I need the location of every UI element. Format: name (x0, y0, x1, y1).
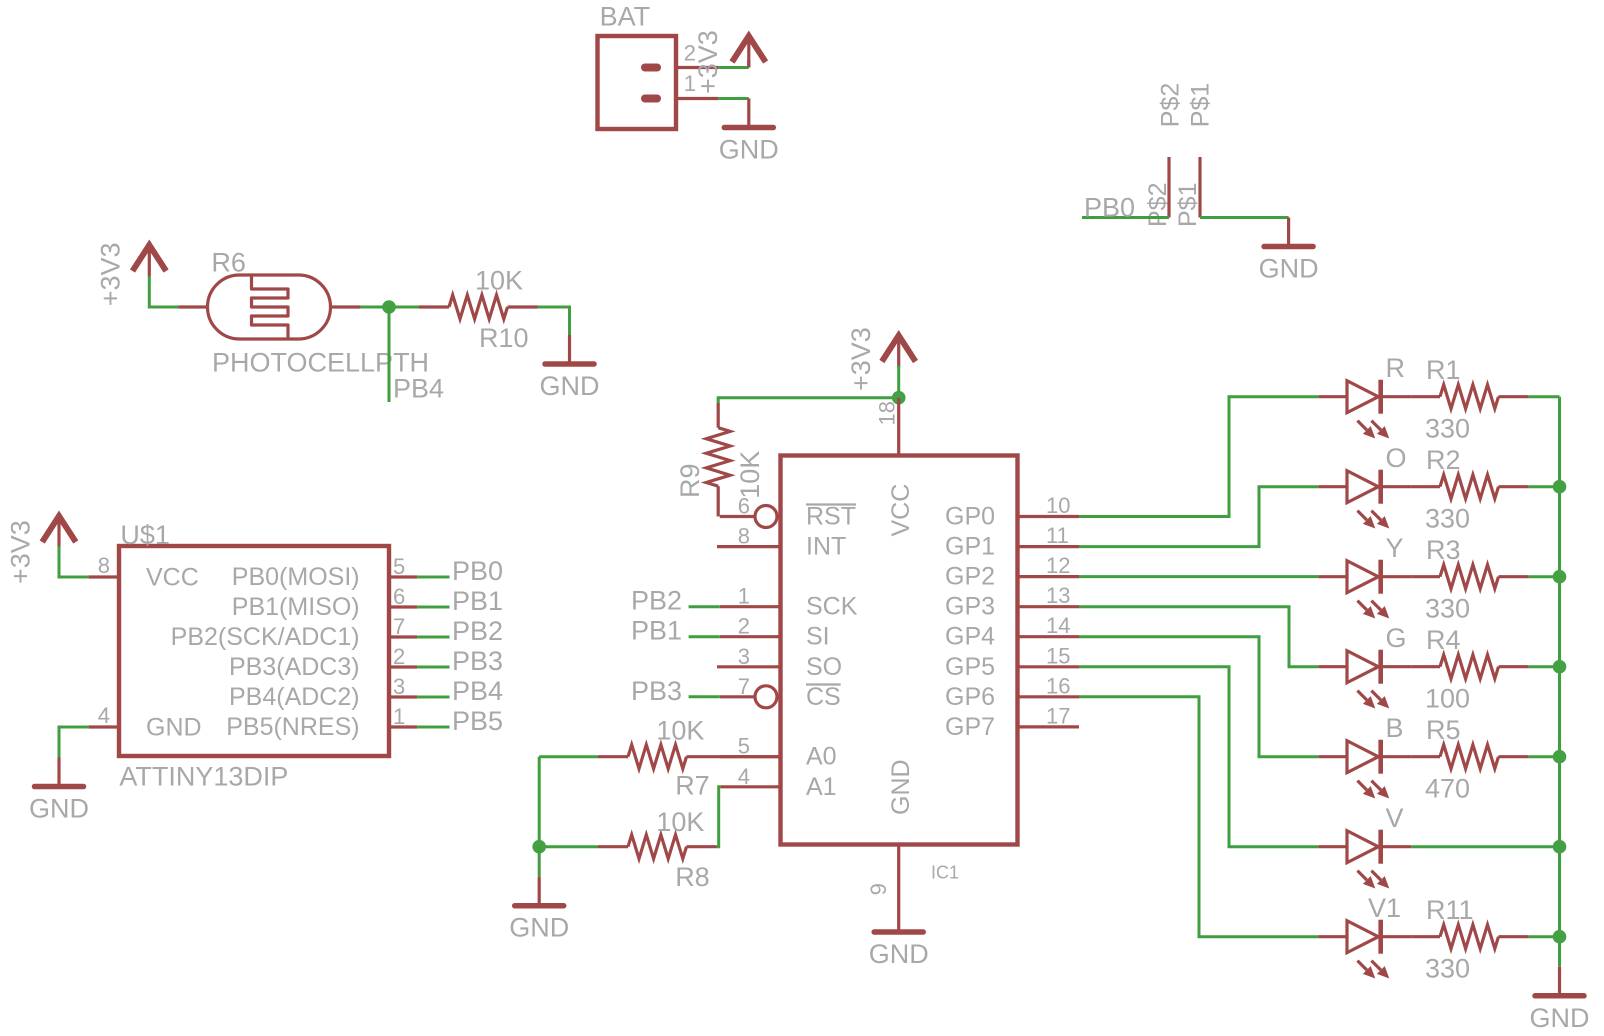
svg-text:R6: R6 (211, 248, 246, 278)
svg-text:GP5: GP5 (945, 653, 995, 681)
resistor R8 10K (598, 807, 717, 892)
svg-text:GND: GND (146, 714, 202, 742)
resistor R10 10K (419, 266, 538, 354)
wire net PB2 at U$1 (417, 636, 449, 639)
svg-text:GND: GND (887, 759, 915, 815)
svg-text:330: 330 (1425, 594, 1470, 624)
header pin P$1 (1174, 83, 1215, 227)
wire net PB4 (388, 307, 391, 402)
U$1 pin 6 PB1(MISO) (232, 584, 417, 621)
svg-text:PB2(SCK/ADC1): PB2(SCK/ADC1) (171, 623, 360, 651)
LED G (1318, 623, 1411, 709)
ground GND at header (1259, 218, 1319, 284)
svg-text:GP6: GP6 (945, 683, 995, 711)
wire U$1 pin 4 to GND (59, 727, 89, 758)
ground GND at R10 (540, 335, 600, 401)
net label PB4 (U$1) (452, 676, 503, 706)
ground GND at IC1 (869, 903, 929, 969)
svg-text:R2: R2 (1426, 445, 1461, 475)
LED V1 (1318, 893, 1411, 979)
svg-text:U$1: U$1 (120, 520, 170, 550)
svg-text:10K: 10K (735, 451, 765, 499)
svg-text:GND: GND (1530, 1003, 1590, 1033)
svg-text:IC1: IC1 (931, 863, 959, 883)
net label +3V3 (BAT) (693, 30, 723, 94)
svg-text:1: 1 (393, 704, 405, 729)
IC1 pin 4 A1 (721, 764, 837, 801)
wire net PB5 at U$1 (417, 726, 449, 729)
wire +3V3 to photocell (149, 276, 178, 307)
svg-text:2: 2 (738, 614, 750, 639)
svg-text:GND: GND (509, 913, 569, 943)
svg-text:10K: 10K (475, 266, 523, 296)
svg-text:100: 100 (1425, 684, 1470, 714)
resistor R3 330 (1411, 535, 1528, 624)
svg-text:SO: SO (806, 653, 842, 681)
IC1 pin 11 GP1 (945, 523, 1079, 561)
ground GND below BAT (719, 99, 779, 165)
IC1 pin 5 A0 (720, 734, 837, 771)
net label PB1 (IC1) (631, 616, 682, 646)
svg-text:11: 11 (1046, 523, 1069, 548)
svg-text:PB4: PB4 (452, 676, 503, 706)
junction node rail y666 (1553, 660, 1567, 674)
svg-text:PB2: PB2 (452, 616, 503, 646)
svg-text:R1: R1 (1426, 355, 1461, 385)
svg-text:R3: R3 (1426, 535, 1461, 565)
wire R4 to GND rail (1529, 665, 1560, 668)
svg-text:12: 12 (1046, 553, 1070, 578)
svg-text:V: V (1386, 803, 1404, 833)
wire R1 to GND rail (1529, 395, 1560, 398)
svg-text:R10: R10 (479, 323, 529, 353)
wire junction to GND (538, 847, 541, 877)
svg-text:RST: RST (806, 503, 856, 531)
svg-text:P$2: P$2 (1144, 183, 1172, 227)
svg-text:GP7: GP7 (945, 713, 995, 741)
svg-text:GP3: GP3 (945, 593, 995, 621)
power +3V3 arrow at BAT (732, 36, 766, 68)
U$1 pin 5 PB0(MOSI) (232, 554, 417, 591)
svg-text:R8: R8 (675, 862, 710, 892)
svg-text:6: 6 (738, 494, 750, 519)
header pin P$2 (1144, 83, 1185, 227)
svg-text:4: 4 (738, 764, 750, 789)
battery connector BAT outline (598, 2, 677, 130)
wire GP3 to LED (1079, 607, 1318, 667)
net label PB4 (393, 374, 444, 404)
svg-text:4: 4 (98, 703, 110, 728)
junction node rail y846 (1553, 840, 1567, 854)
wire +3V3 arrow to junction (897, 366, 900, 399)
svg-text:PB4: PB4 (393, 374, 444, 404)
svg-text:PB1(MISO): PB1(MISO) (232, 593, 360, 621)
IC1 pin 14 GP4 (945, 613, 1079, 651)
svg-text:330: 330 (1425, 414, 1470, 444)
svg-text:P$1: P$1 (1187, 83, 1215, 127)
svg-text:R: R (1386, 353, 1406, 383)
U$1 pin 7 PB2(SCK/ADC1) (171, 614, 418, 651)
U$1 pin 2 PB3(ADC3) (229, 644, 417, 681)
net label PB3 (IC1) (631, 676, 682, 706)
wire GP0 to LED (1079, 397, 1318, 517)
wire GP1 to LED (1079, 487, 1318, 547)
svg-text:PB1: PB1 (631, 616, 682, 646)
junction node PB4 (382, 300, 396, 314)
IC1 pin 9 GND (866, 759, 915, 903)
svg-text:R5: R5 (1426, 715, 1461, 745)
svg-text:PB3: PB3 (631, 676, 682, 706)
resistor R5 470 (1411, 715, 1528, 804)
LED Y (1318, 533, 1411, 619)
svg-text:R11: R11 (1426, 895, 1474, 925)
wire GND rail (1558, 397, 1561, 967)
svg-text:V1: V1 (1368, 893, 1401, 923)
svg-text:10: 10 (1046, 493, 1070, 518)
wire +3V3 from BAT pin 2 (718, 66, 749, 69)
junction node R7/R8 GND (532, 840, 546, 854)
wire LED V to GND rail (1411, 845, 1559, 848)
wire junction column (538, 757, 541, 847)
svg-text:3: 3 (393, 674, 405, 699)
net label PB0 (header) (1084, 193, 1135, 223)
ground GND at R7/R8 (509, 877, 569, 943)
svg-text:A0: A0 (806, 743, 837, 771)
svg-text:SI: SI (806, 623, 830, 651)
IC1 pin 1 SCK (720, 584, 858, 621)
U$1 pin 8 VCC (89, 553, 199, 592)
IC1 pin 18 VCC (874, 398, 915, 537)
IC U$1 ATTINY13DIP box (119, 520, 389, 792)
wire net PB2 to SCK (689, 605, 720, 608)
net label PB0 (U$1) (452, 556, 503, 586)
junction node VCC (892, 391, 906, 405)
svg-text:R7: R7 (675, 771, 710, 801)
wire R5 to GND rail (1529, 755, 1560, 758)
wire GP4 to LED (1079, 637, 1318, 757)
svg-text:O: O (1386, 443, 1407, 473)
svg-text:+3V3: +3V3 (6, 520, 36, 584)
svg-text:PB1: PB1 (452, 586, 503, 616)
net label +3V3 (IC1) (846, 327, 876, 391)
wire R8 left (539, 845, 598, 848)
resistor R11 330 (1411, 895, 1528, 984)
svg-text:+3V3: +3V3 (693, 30, 723, 94)
wire net PB3 to CS (689, 695, 720, 698)
svg-text:CS: CS (806, 683, 841, 711)
wire net PB3 at U$1 (417, 666, 449, 669)
svg-text:13: 13 (1046, 583, 1070, 608)
wire net PB0 to header (1082, 216, 1169, 219)
svg-text:10K: 10K (656, 807, 704, 837)
wire header P$1 to GND (1200, 216, 1289, 219)
svg-text:SCK: SCK (806, 593, 858, 621)
svg-text:GND: GND (540, 371, 600, 401)
U$1 pin 1 PB5(NRES) (226, 704, 417, 741)
svg-text:PB0: PB0 (1084, 193, 1135, 223)
LED B (1318, 713, 1411, 799)
net label PB5 (U$1) (452, 706, 503, 736)
svg-text:+3V3: +3V3 (96, 242, 126, 306)
wire photocell to R10 (361, 306, 419, 309)
svg-text:1: 1 (738, 584, 750, 609)
IC1 pin 6 RST (720, 494, 856, 531)
svg-text:Y: Y (1386, 533, 1404, 563)
svg-text:PB0(MOSI): PB0(MOSI) (232, 563, 360, 591)
net label PB2 (IC1) (631, 586, 682, 616)
svg-text:14: 14 (1046, 613, 1070, 638)
junction node rail y756 (1553, 750, 1567, 764)
BAT pin 2 (676, 41, 718, 68)
svg-text:PB0: PB0 (452, 556, 503, 586)
svg-text:5: 5 (393, 554, 405, 579)
IC1 pin 3 SO (717, 644, 842, 681)
LED O (1318, 443, 1411, 529)
IC1 pin 12 GP2 (945, 553, 1079, 591)
IC1 pin 2 SI (720, 614, 830, 651)
svg-text:VCC: VCC (146, 564, 199, 592)
power +3V3 arrow at U$1 (42, 516, 76, 548)
wire R7 left to junction (539, 755, 598, 758)
svg-text:P$2: P$2 (1157, 83, 1185, 127)
svg-text:PB4(ADC2): PB4(ADC2) (229, 683, 360, 711)
wire GP6 to LED (1079, 697, 1318, 937)
wire R8 right to A1 (717, 787, 722, 847)
U$1 pin 3 PB4(ADC2) (229, 674, 417, 711)
svg-text:330: 330 (1425, 504, 1470, 534)
svg-text:GND: GND (869, 939, 929, 969)
svg-text:B: B (1386, 713, 1404, 743)
IC1 pin 10 GP0 (945, 493, 1079, 531)
svg-text:8: 8 (738, 524, 750, 549)
svg-text:BAT: BAT (600, 2, 651, 32)
IC1 pin 7 CS (720, 674, 841, 711)
svg-text:PB3(ADC3): PB3(ADC3) (229, 653, 360, 681)
svg-text:PB5: PB5 (452, 706, 503, 736)
svg-text:GND: GND (1259, 254, 1319, 284)
svg-text:16: 16 (1046, 673, 1070, 698)
svg-text:2: 2 (393, 644, 405, 669)
svg-text:470: 470 (1425, 774, 1470, 804)
svg-text:A1: A1 (806, 773, 837, 801)
wire GP2 to LED (1079, 575, 1318, 578)
IC1 pin 15 GP5 (945, 643, 1079, 681)
BAT pin 1 (676, 71, 718, 99)
svg-text:10K: 10K (656, 716, 704, 746)
svg-text:6: 6 (393, 584, 405, 609)
resistor R7 10K (598, 716, 781, 801)
svg-text:GND: GND (719, 135, 779, 165)
wire net PB1 at U$1 (417, 606, 449, 609)
net label PB1 (U$1) (452, 586, 503, 616)
power +3V3 arrow at IC1 (882, 336, 916, 368)
svg-text:P$1: P$1 (1174, 183, 1202, 227)
svg-text:GP1: GP1 (945, 533, 995, 561)
ground GND at U$1 (29, 758, 89, 824)
svg-text:7: 7 (738, 674, 750, 699)
LED R (1318, 353, 1411, 439)
IC1 pin 8 INT (717, 524, 846, 561)
net label PB3 (U$1) (452, 646, 503, 676)
wire +3V3 to U$1 pin 8 (59, 546, 89, 577)
wire net PB4 at U$1 (417, 696, 449, 699)
ground GND at LED rail (1530, 967, 1590, 1033)
IC1 pin 17 GP7 (945, 703, 1079, 741)
svg-text:7: 7 (393, 614, 405, 639)
resistor R2 330 (1411, 445, 1528, 534)
wire R10 to GND (538, 307, 570, 335)
svg-text:9: 9 (866, 883, 891, 895)
svg-text:R9: R9 (675, 463, 705, 498)
svg-text:PB2: PB2 (631, 586, 682, 616)
svg-text:GP0: GP0 (945, 503, 995, 531)
IC1 box (781, 456, 1018, 883)
svg-text:VCC: VCC (887, 484, 915, 537)
resistor R4 100 (1411, 625, 1528, 714)
IC1 pin 16 GP6 (945, 673, 1079, 711)
junction node rail y486 (1553, 480, 1567, 494)
junction node rail y576 (1553, 570, 1567, 584)
svg-text:G: G (1386, 623, 1407, 653)
IC1 pin 13 GP3 (945, 583, 1079, 621)
U$1 pin 4 GND (89, 703, 202, 742)
net label +3V3 (U$1) (6, 520, 36, 584)
svg-text:GP2: GP2 (945, 563, 995, 591)
svg-text:+3V3: +3V3 (846, 327, 876, 391)
wire +3V3 to R9 (718, 398, 899, 403)
wire net PB1 to SI (689, 635, 720, 638)
svg-text:8: 8 (98, 553, 110, 578)
svg-text:5: 5 (738, 734, 750, 759)
svg-text:GND: GND (29, 794, 89, 824)
svg-text:15: 15 (1046, 643, 1070, 668)
resistor R1 330 (1411, 355, 1528, 444)
wire GP5 to LED (1079, 667, 1318, 847)
wire net PB0 at U$1 (417, 576, 449, 579)
power +3V3 arrow at photocell (133, 245, 167, 277)
svg-text:GP4: GP4 (945, 623, 995, 651)
svg-text:330: 330 (1425, 954, 1470, 984)
junction node rail y936 (1553, 930, 1567, 944)
photocell R6 (179, 248, 430, 378)
svg-text:3: 3 (738, 644, 750, 669)
svg-text:ATTINY13DIP: ATTINY13DIP (119, 762, 288, 792)
svg-text:INT: INT (806, 533, 846, 561)
wire R2 to GND rail (1529, 485, 1560, 488)
svg-text:17: 17 (1046, 703, 1070, 728)
svg-text:PB5(NRES): PB5(NRES) (226, 713, 359, 741)
wire R11 to GND rail (1529, 935, 1560, 938)
wire GND from BAT pin 1 (718, 97, 749, 100)
resistor R9 10K (675, 403, 765, 517)
net label PB2 (U$1) (452, 616, 503, 646)
svg-text:R4: R4 (1426, 625, 1461, 655)
svg-text:18: 18 (874, 401, 899, 425)
wire R3 to GND rail (1529, 575, 1560, 578)
svg-text:PB3: PB3 (452, 646, 503, 676)
LED V (1318, 803, 1411, 889)
net label +3V3 (photocell) (96, 242, 126, 306)
